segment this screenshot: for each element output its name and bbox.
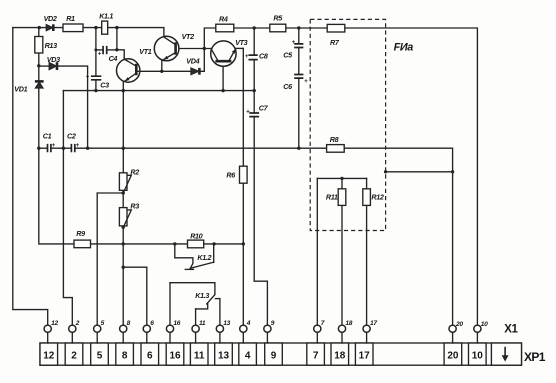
svg-text:R2: R2 [130, 167, 139, 176]
svg-text:16: 16 [169, 350, 181, 361]
svg-text:VD3: VD3 [47, 55, 60, 64]
svg-text:VT1: VT1 [139, 47, 151, 56]
svg-text:R7: R7 [330, 38, 340, 47]
svg-text:2: 2 [71, 350, 77, 361]
svg-text:20: 20 [447, 350, 459, 361]
svg-text:K1.2: K1.2 [197, 253, 211, 262]
svg-text:VT3: VT3 [235, 38, 247, 47]
svg-text:C7: C7 [259, 103, 269, 112]
svg-text:10: 10 [472, 350, 484, 361]
svg-text:C8: C8 [259, 52, 268, 61]
svg-text:10: 10 [481, 321, 488, 328]
svg-text:+: + [292, 40, 296, 46]
svg-text:R13: R13 [45, 41, 57, 50]
svg-text:R3: R3 [130, 202, 139, 211]
svg-text:VD4: VD4 [186, 56, 199, 65]
svg-text:VD1: VD1 [14, 85, 27, 94]
svg-text:+: + [304, 79, 308, 85]
svg-text:2: 2 [75, 320, 80, 327]
svg-text:+: + [52, 143, 56, 149]
svg-text:C3: C3 [100, 80, 109, 89]
svg-text:R9: R9 [76, 229, 85, 238]
svg-text:VD2: VD2 [44, 14, 57, 23]
svg-text:+: + [245, 54, 249, 60]
svg-text:VT2: VT2 [182, 32, 194, 41]
svg-text:4: 4 [245, 350, 251, 361]
svg-text:+: + [246, 109, 250, 115]
svg-text:11: 11 [199, 320, 206, 327]
svg-text:K1.1: K1.1 [99, 11, 113, 20]
svg-text:R1: R1 [66, 14, 75, 23]
svg-text:R5: R5 [273, 14, 283, 23]
svg-text:11: 11 [194, 350, 205, 361]
svg-text:6: 6 [147, 350, 153, 361]
svg-text:17: 17 [359, 350, 371, 361]
svg-text:C4: C4 [109, 54, 118, 63]
svg-text:8: 8 [122, 350, 128, 361]
svg-text:13: 13 [223, 320, 230, 327]
svg-text:5: 5 [97, 350, 103, 361]
svg-text:18: 18 [334, 350, 346, 361]
svg-text:4: 4 [246, 320, 251, 327]
svg-text:C6: C6 [283, 82, 293, 91]
svg-text:FИа: FИа [394, 42, 414, 54]
svg-text:X1: X1 [504, 323, 518, 335]
svg-text:C5: C5 [283, 51, 293, 60]
svg-text:7: 7 [313, 350, 319, 361]
svg-text:XP1: XP1 [524, 350, 546, 364]
svg-text:18: 18 [345, 320, 352, 327]
svg-text:R12: R12 [371, 192, 383, 201]
svg-text:R10: R10 [190, 232, 202, 241]
svg-text:16: 16 [173, 320, 180, 327]
svg-text:13: 13 [218, 350, 230, 361]
svg-text:+: + [98, 51, 102, 57]
svg-text:20: 20 [455, 321, 463, 328]
svg-text:R6: R6 [226, 170, 236, 179]
svg-text:+: + [76, 143, 80, 149]
svg-text:C1: C1 [43, 132, 52, 141]
svg-text:C2: C2 [67, 132, 76, 141]
svg-text:R11: R11 [326, 192, 338, 201]
svg-text:9: 9 [271, 350, 277, 361]
svg-text:12: 12 [51, 320, 58, 327]
svg-text:+: + [86, 75, 90, 81]
svg-text:R8: R8 [330, 135, 339, 144]
svg-text:K1.3: K1.3 [195, 291, 209, 300]
svg-text:R4: R4 [219, 14, 228, 23]
svg-text:17: 17 [370, 320, 377, 327]
svg-text:12: 12 [43, 350, 55, 361]
